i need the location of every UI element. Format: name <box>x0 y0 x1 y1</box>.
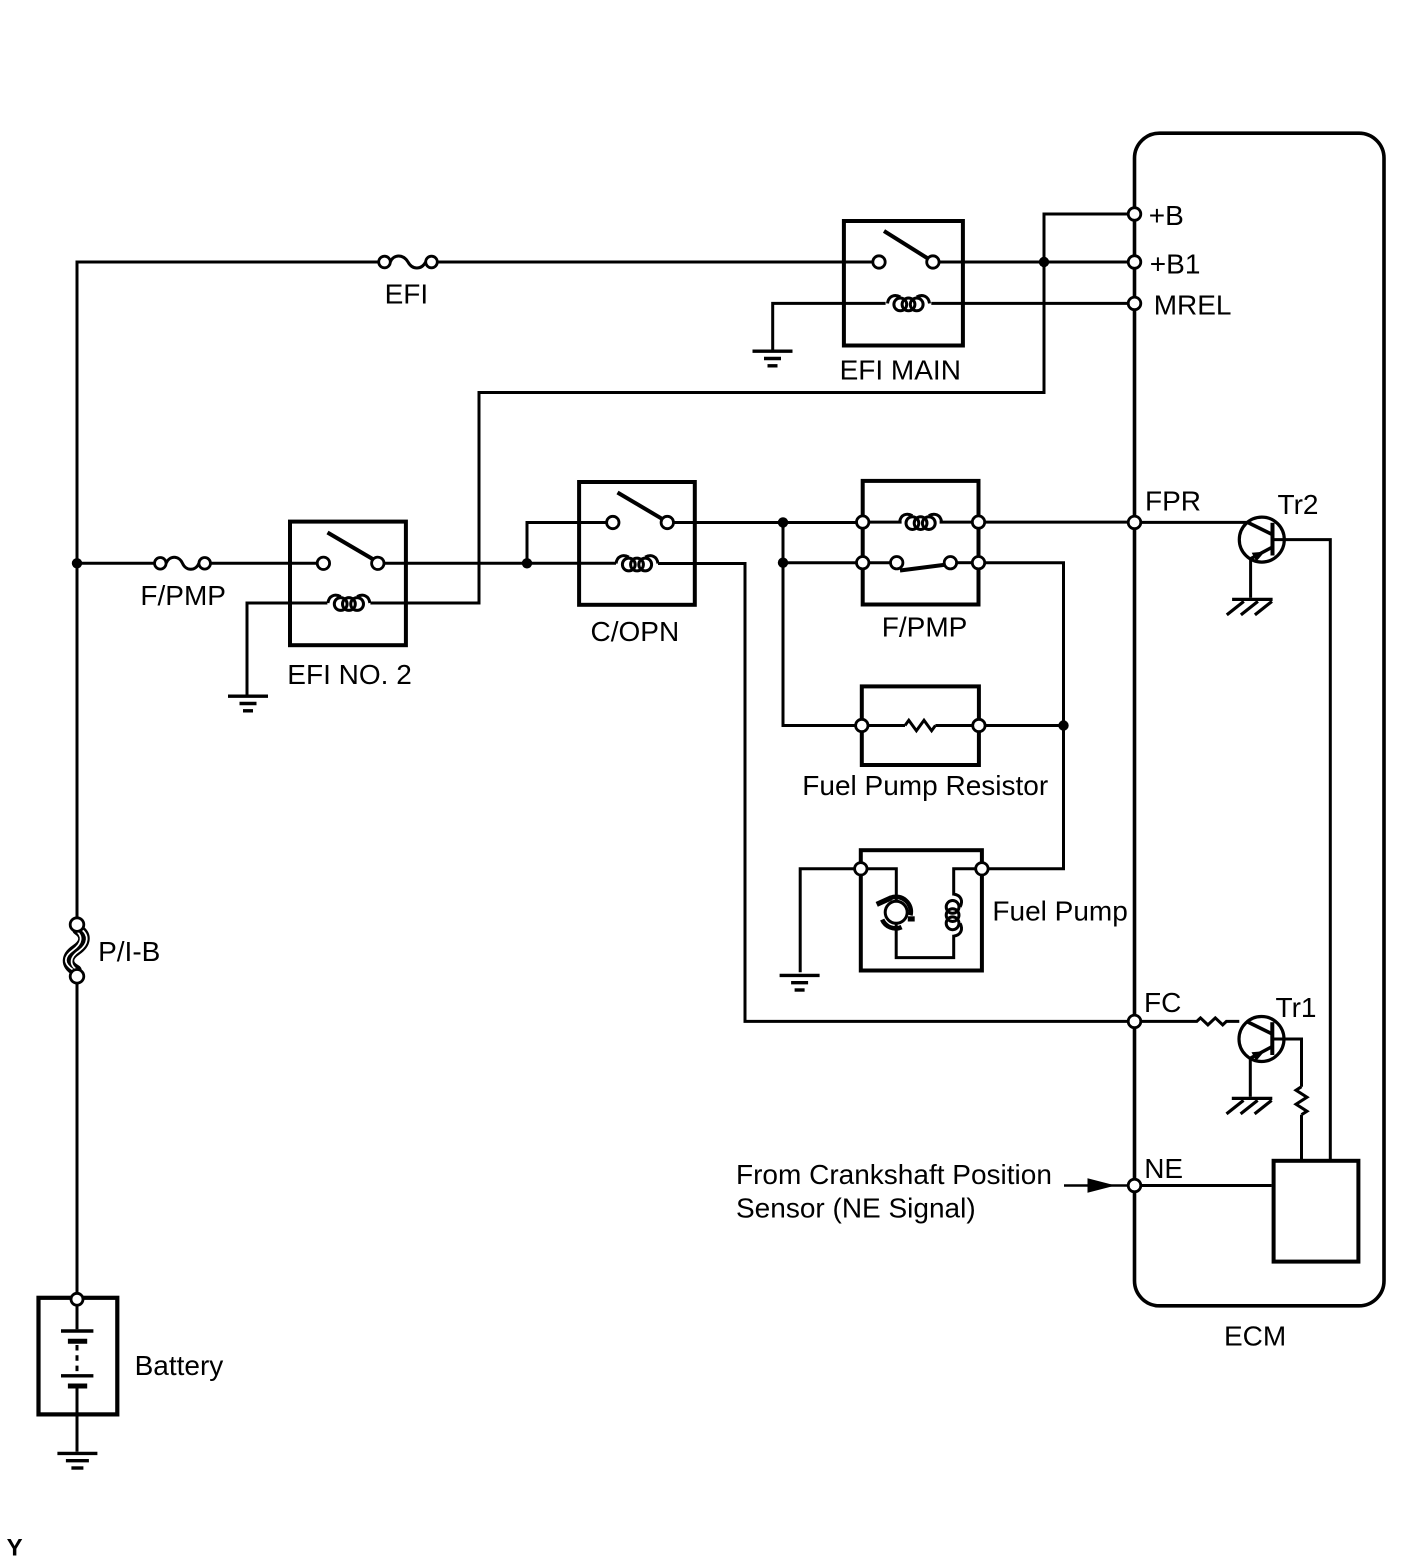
coil of EFI MAIN relay <box>888 296 930 311</box>
transistor Tr2 <box>1239 517 1284 562</box>
switch of C/OPN relay <box>607 493 674 529</box>
switch of F/PMP relay <box>869 557 972 571</box>
svg-text:FPR: FPR <box>1145 486 1201 517</box>
wire: FPR pin to Tr2 base <box>1141 521 1248 524</box>
terminal of battery <box>71 1293 83 1305</box>
fusible link P/I-B <box>66 918 87 983</box>
svg-text:EFI NO. 2: EFI NO. 2 <box>287 659 411 690</box>
chassis ground: Tr1 <box>1227 1098 1273 1114</box>
wire: resistor to NE block <box>1300 1115 1303 1161</box>
ground: EFI MAIN relay <box>753 351 793 366</box>
coil of C/OPN relay <box>616 556 658 571</box>
ground: battery <box>57 1453 97 1468</box>
relay EFI MAIN box <box>844 221 963 346</box>
arrow: NE signal input <box>1064 1184 1128 1187</box>
svg-text:+B: +B <box>1149 200 1184 231</box>
pin +B <box>1128 208 1141 221</box>
pin FC <box>1128 1015 1141 1028</box>
svg-text:P/I-B: P/I-B <box>98 936 160 967</box>
pin MREL <box>1128 297 1141 310</box>
pin FPR <box>1128 516 1141 529</box>
svg-text:EFI MAIN: EFI MAIN <box>840 355 961 386</box>
wire: Tr2 emitter to ground <box>1249 559 1252 598</box>
svg-text:Sensor (NE Signal): Sensor (NE Signal) <box>736 1193 976 1224</box>
svg-text:F/PMP: F/PMP <box>140 580 226 611</box>
wire: fuel pump left leg to ground <box>800 869 854 973</box>
terminals of F/PMP coil line <box>857 516 869 528</box>
wire: branch up to C/OPN switch <box>527 523 607 564</box>
terminals of fuel pump <box>855 863 867 875</box>
svg-text:EFI: EFI <box>385 279 429 310</box>
wire: EFI MAIN switch to +B1 pin <box>939 261 1128 264</box>
motor of fuel pump <box>867 869 954 958</box>
resistor at FC pin <box>1141 1018 1240 1025</box>
wire: EFI fuse to EFI MAIN relay switch <box>437 261 873 264</box>
wire: C/OPN coil right leg down to FC pin <box>658 564 1128 1022</box>
svg-text:ECM: ECM <box>1224 1321 1286 1352</box>
wire: Tr1 collector <box>1272 1039 1301 1087</box>
relay EFI NO.2 box <box>290 522 406 646</box>
wire: battery feed left vertical + top horizontal to EFI fuse <box>77 262 379 923</box>
svg-text:MREL: MREL <box>1154 290 1232 321</box>
terminals of F/PMP switch line <box>857 557 869 569</box>
wire: main mid feed to F/PMP fuse <box>77 562 155 565</box>
ground: fuel pump <box>780 975 820 990</box>
switch of EFI MAIN relay <box>873 231 939 268</box>
wire: Tr1 emitter to ground <box>1249 1059 1252 1097</box>
fuse F/PMP <box>155 557 211 569</box>
svg-text:Fuel Pump Resistor: Fuel Pump Resistor <box>802 770 1048 801</box>
wire: P/I-B to battery <box>76 983 79 1295</box>
wire: +B1 node down, across and down to EFI NO.2 coil <box>370 262 1044 603</box>
junction: node on FPR line <box>778 517 788 527</box>
coil of fuel pump <box>946 869 976 936</box>
junction: node on F/PMP switch line <box>778 558 788 568</box>
svg-text:Fuel Pump: Fuel Pump <box>992 896 1127 927</box>
wire: F/PMP coil to FPR pin <box>985 521 1128 524</box>
fuse EFI <box>379 256 438 268</box>
wire: C/OPN switch to F/PMP relay coil <box>674 521 857 524</box>
wire: F/PMP switch right leg down to fuel pump <box>985 563 1064 869</box>
pin +B1 <box>1128 256 1141 269</box>
NE block box <box>1274 1161 1359 1262</box>
terminals of fuel pump resistor <box>856 719 868 731</box>
ground: EFI NO.2 relay <box>228 696 268 711</box>
wire: junction to F/PMP switch <box>783 561 857 564</box>
chassis ground: Tr2 <box>1227 599 1273 615</box>
wire: junction column down to fuel pump resistor <box>783 522 856 725</box>
junction: node right of resistor <box>1058 720 1068 730</box>
wire: EFI MAIN coil line to MREL pin <box>931 302 1128 305</box>
transistor Tr1 <box>1239 1017 1284 1062</box>
wire: battery to ground <box>76 1414 79 1451</box>
svg-text:NE: NE <box>1144 1153 1183 1184</box>
svg-text:+B1: +B1 <box>1150 249 1201 280</box>
svg-text:Battery: Battery <box>135 1350 224 1381</box>
fuel pump box <box>861 850 982 970</box>
wire: resistor to junction column <box>985 724 1063 727</box>
battery box <box>39 1298 118 1415</box>
battery cells <box>61 1305 93 1414</box>
wire: EFI NO.2 switch to C/OPN coil <box>384 562 616 565</box>
ECM box <box>1135 133 1385 1306</box>
coil of F/PMP relay <box>869 514 972 529</box>
switch of EFI NO.2 relay <box>317 533 384 570</box>
wire: Tr2 collector to NE block <box>1273 540 1331 1161</box>
wire: EFI MAIN coil left leg to ground <box>773 303 886 349</box>
junction: node at x77 <box>72 558 82 568</box>
svg-text:F/PMP: F/PMP <box>882 612 968 643</box>
resistor element <box>868 720 973 730</box>
junction: +B1 node <box>1039 257 1049 267</box>
wire: EFI NO.2 coil left leg to ground <box>247 603 327 695</box>
relay F/PMP box <box>863 481 979 605</box>
svg-text:C/OPN: C/OPN <box>591 616 680 647</box>
junction: node before C/OPN <box>522 558 532 568</box>
resistor at Tr1 emitter circuit (vertical) <box>1296 1087 1307 1115</box>
svg-text:Y: Y <box>7 1535 23 1562</box>
svg-text:Tr1: Tr1 <box>1276 992 1317 1023</box>
resistor box (fuel pump resistor) <box>862 686 979 765</box>
svg-text:Tr2: Tr2 <box>1278 489 1319 520</box>
wire: +B branch <box>1044 214 1128 262</box>
relay C/OPN box <box>579 482 695 605</box>
pin NE <box>1128 1179 1141 1192</box>
svg-text:From Crankshaft Position: From Crankshaft Position <box>736 1159 1052 1190</box>
wire: F/PMP fuse to EFI NO.2 switch <box>211 562 318 565</box>
wire: NE pin to NE block <box>1141 1184 1272 1187</box>
svg-text:FC: FC <box>1144 987 1181 1018</box>
coil of EFI NO.2 relay <box>328 595 370 610</box>
